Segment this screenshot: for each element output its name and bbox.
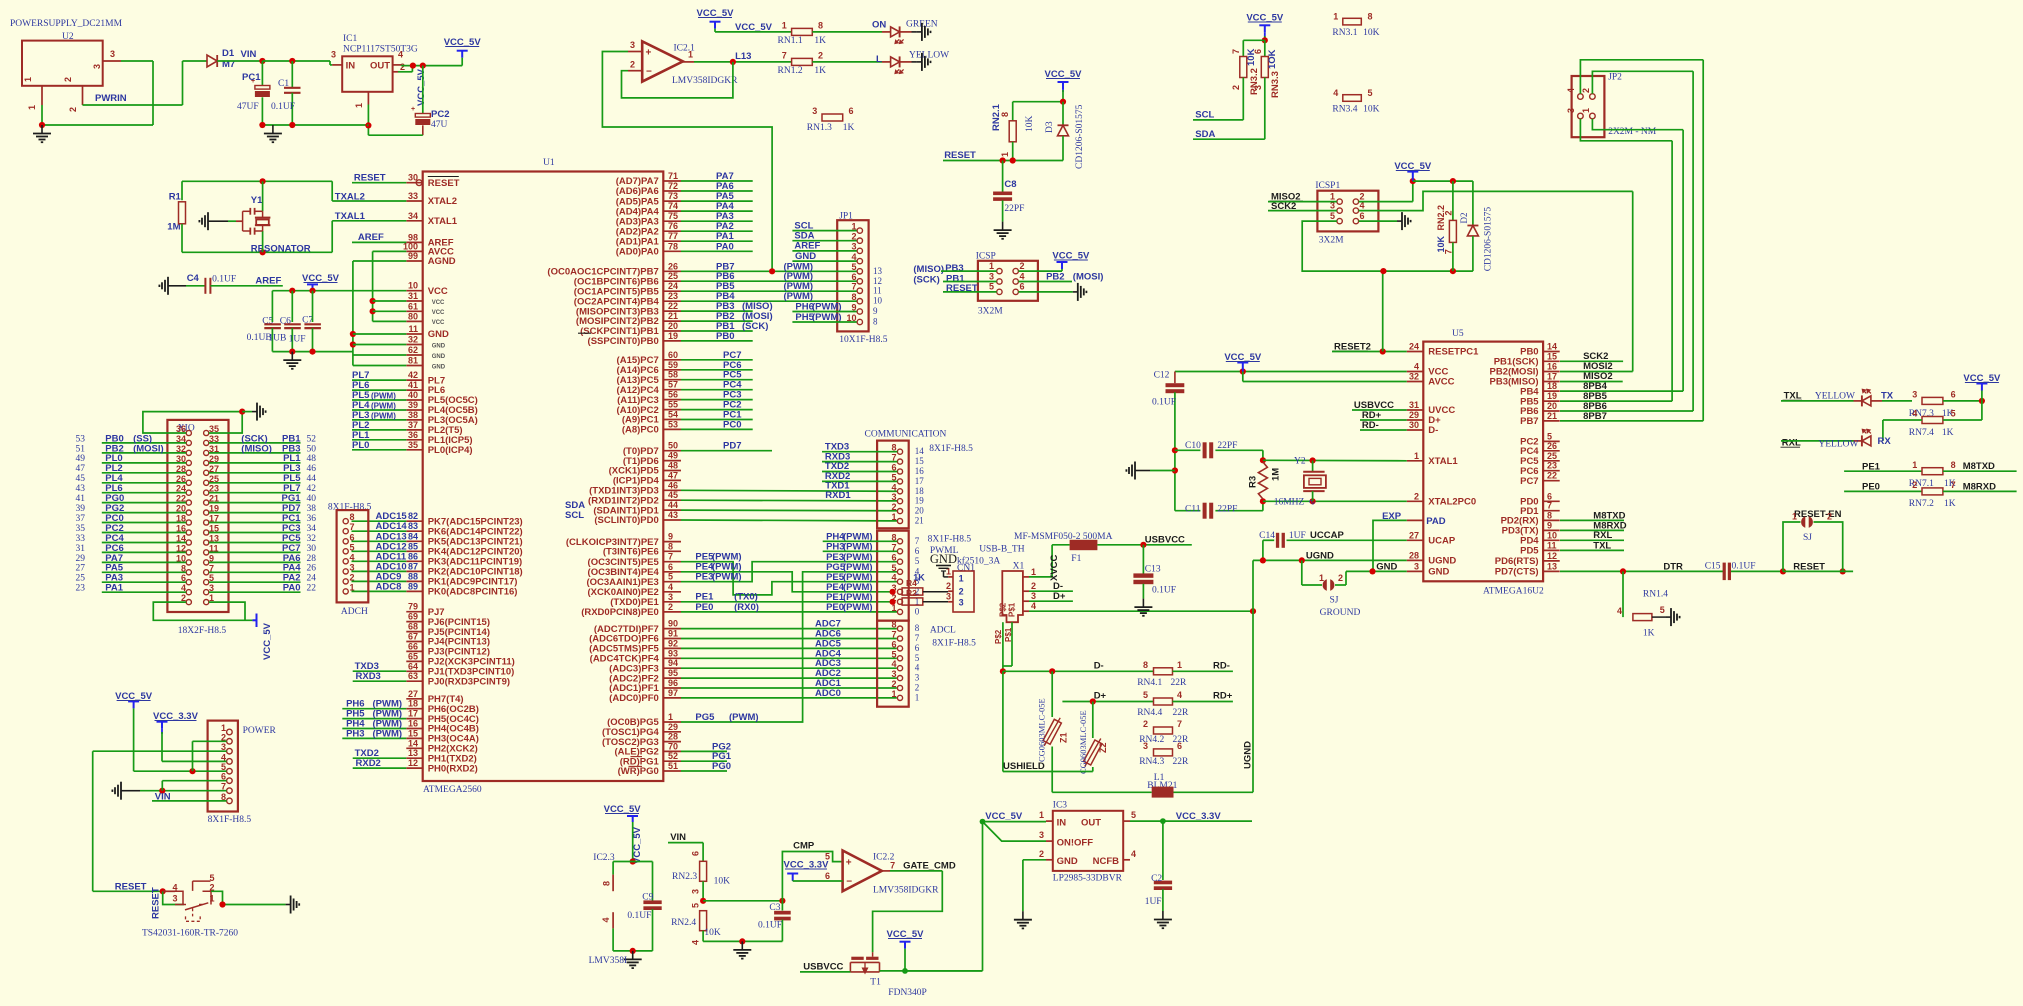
ADCH pin 6 [343, 539, 348, 544]
wire D+ row [1062, 701, 1153, 703]
COMM pin 4 [897, 489, 902, 494]
svg-text:PL0(ICP4): PL0(ICP4) [428, 445, 473, 456]
svg-text:RXD3: RXD3 [356, 671, 381, 682]
resistor RN1.1 1K [792, 28, 813, 35]
svg-text:83: 83 [408, 521, 418, 531]
wire VCC to RN1.1 [715, 31, 792, 33]
svg-text:8PB7: 8PB7 [1583, 411, 1607, 422]
svg-text:38: 38 [408, 410, 418, 420]
VCC_5V symbol top right of IC1 [457, 50, 468, 52]
U1 pin 51 (WR)PG0 [663, 770, 681, 772]
svg-text:26: 26 [1547, 441, 1557, 451]
svg-text:60: 60 [668, 350, 678, 360]
node DTR [1620, 568, 1626, 574]
svg-text:(PWM): (PWM) [371, 402, 396, 411]
svg-text:5: 5 [1143, 690, 1148, 700]
wire out rail to VCC_5V [400, 64, 402, 67]
svg-text:87: 87 [408, 561, 418, 571]
svg-text:U5: U5 [1452, 329, 1464, 339]
ICSP1 pin6 to ground [1359, 220, 1397, 222]
svg-text:0.1UF: 0.1UF [758, 921, 782, 931]
svg-text:10K: 10K [1436, 235, 1446, 252]
U1 pin 50 (T0)PD7 [663, 450, 681, 452]
VCC_5V right [1976, 383, 1987, 385]
U1 pin 44 (SDAINT1)PD1 [663, 509, 681, 511]
svg-text:12: 12 [1547, 551, 1557, 561]
wire PG0 stub [681, 770, 727, 772]
U1 pin 8 (T3INT6)PE6 [663, 550, 681, 552]
svg-text:35: 35 [408, 440, 418, 450]
junction PWML pin2 R2 [890, 599, 896, 605]
svg-text:PC1: PC1 [242, 72, 261, 83]
svg-text:8X1F-H8.5: 8X1F-H8.5 [932, 639, 976, 649]
resistor RN2.1 10K vertical [1012, 102, 1014, 121]
U1 pin 38 PL3(OC5A) [406, 419, 422, 421]
svg-text:12: 12 [408, 758, 418, 768]
svg-text:1: 1 [1319, 573, 1324, 583]
feedback wire pin1 to pin2 [622, 62, 733, 98]
PWML pin 6 [897, 559, 902, 564]
svg-text:PJ0(RXD3PCINT9): PJ0(RXD3PCINT9) [428, 676, 510, 687]
svg-text:USBVCC: USBVCC [803, 962, 843, 973]
svg-text:CN1: CN1 [957, 564, 975, 574]
svg-text:65: 65 [408, 651, 418, 661]
svg-text:TS42031-160R-TR-7260: TS42031-160R-TR-7260 [142, 929, 238, 939]
COMM pin 5 [897, 479, 902, 484]
resistor RN1.3 spare [822, 114, 843, 121]
svg-text:7: 7 [1951, 480, 1956, 490]
COMM pin 2 [897, 509, 902, 514]
U1 pin 42 PL7 [406, 379, 422, 381]
resistor R4 [902, 588, 923, 595]
U1 pin 9 (CLKOICP3INT7)PE7 [663, 541, 681, 543]
svg-text:32: 32 [1409, 372, 1419, 382]
svg-text:USHIELD: USHIELD [1003, 761, 1045, 772]
VCC rail to RN2.2 and D2 [1413, 180, 1473, 182]
svg-text:T1: T1 [870, 978, 881, 988]
svg-text:PC0: PC0 [723, 419, 741, 430]
COMM pin 7 [897, 459, 902, 464]
svg-text:3: 3 [1143, 741, 1148, 751]
JP1 pin 9 [857, 309, 862, 314]
svg-text:22R: 22R [1173, 708, 1190, 718]
svg-text:1UF: 1UF [289, 335, 306, 345]
U1 pin 21 PB2 [663, 320, 681, 322]
ADCH pin 8 [343, 519, 348, 524]
PWML pin 5 [897, 569, 902, 574]
svg-text:9: 9 [873, 306, 878, 316]
svg-text:92: 92 [668, 638, 678, 648]
svg-text:2: 2 [1231, 85, 1241, 90]
svg-text:93: 93 [668, 648, 678, 658]
svg-text:XTAL2PC0: XTAL2PC0 [1428, 497, 1476, 508]
op-amp IC2.2 [843, 851, 882, 892]
junction at U2 pin1 gnd [39, 122, 45, 128]
svg-text:5: 5 [989, 282, 994, 292]
svg-text:∿: ∿ [1308, 497, 1316, 507]
svg-text:USBVCC: USBVCC [1145, 535, 1185, 546]
svg-text:RN3.3: RN3.3 [1270, 71, 1281, 98]
U1 pin 78 (AD0)PA0 [663, 250, 681, 252]
svg-text:3: 3 [331, 50, 336, 60]
ADCL pin 4 [897, 666, 902, 671]
svg-text:RN2.2: RN2.2 [1436, 205, 1446, 231]
svg-text:43: 43 [668, 510, 678, 520]
svg-text:ADC0: ADC0 [815, 688, 841, 699]
svg-text:47U: 47U [431, 120, 448, 130]
svg-text:POWERSUPPLY_DC21MM: POWERSUPPLY_DC21MM [10, 19, 123, 29]
capacitor C3 0.1UF [781, 901, 783, 911]
svg-text:69: 69 [408, 612, 418, 622]
svg-text:RESET: RESET [354, 172, 386, 183]
svg-text:51: 51 [668, 761, 678, 771]
svg-text:2: 2 [959, 587, 964, 597]
JP1 pin 4 [857, 258, 862, 263]
svg-text:R3: R3 [1248, 476, 1259, 488]
svg-text:8: 8 [818, 21, 823, 31]
svg-text:(A8)PC0: (A8)PC0 [622, 425, 659, 436]
svg-text:2: 2 [1414, 491, 1419, 501]
svg-text:80: 80 [408, 311, 418, 321]
svg-text:21: 21 [915, 516, 924, 526]
svg-text:D-: D- [1428, 425, 1438, 436]
svg-text:68: 68 [408, 622, 418, 632]
svg-text:ADCH: ADCH [341, 607, 368, 617]
U5 pin 2 XTAL2PC0 [1407, 500, 1424, 502]
svg-text:32: 32 [307, 534, 317, 544]
svg-text:3: 3 [350, 562, 355, 572]
JP2 pin4 [1578, 94, 1584, 100]
IC3 pin1 [1046, 820, 1053, 822]
U5 pin 21 PB7 [1543, 420, 1560, 422]
svg-text:2: 2 [891, 502, 896, 512]
svg-text:CMP: CMP [793, 840, 815, 851]
U5 pin 28 UGND [1407, 559, 1424, 561]
resistor RN2.4 10K [700, 911, 707, 931]
svg-text:91: 91 [668, 629, 678, 639]
svg-text:40: 40 [408, 390, 418, 400]
svg-text:CG0603MLC-05E: CG0603MLC-05E [1078, 710, 1088, 774]
U1 pin 15 PH3(OC4A) [406, 737, 422, 739]
XIO pins 32/31 [186, 450, 191, 455]
svg-text:62: 62 [408, 345, 418, 355]
svg-text:POWER: POWER [243, 726, 277, 736]
resistor RN4.4 22R [1154, 698, 1173, 705]
JP1 pin 5 [857, 269, 862, 274]
XIO pins 28/27 [186, 470, 191, 475]
U1 pin 18 PH6(OC2B) [406, 708, 422, 710]
svg-text:PWRIN: PWRIN [95, 93, 127, 104]
LED RX yellow [1862, 436, 1871, 446]
svg-text:RESET: RESET [428, 178, 460, 189]
svg-text:39: 39 [76, 504, 86, 514]
svg-text:28: 28 [307, 554, 317, 564]
svg-text:D1: D1 [222, 48, 235, 59]
U1 pin 46 (TXD1INT3)PD3 [663, 489, 681, 491]
svg-text:(PWM): (PWM) [729, 712, 759, 723]
IC2.2 output GATE_CMD [882, 870, 890, 872]
wire PE0 to PWML pin1 [681, 611, 897, 613]
wire PH4 to PWML pin8 [823, 540, 898, 542]
svg-text:5: 5 [891, 649, 896, 659]
svg-text:3: 3 [891, 492, 896, 502]
svg-text:COMMUNICATION: COMMUNICATION [865, 430, 947, 440]
svg-text:(SCK): (SCK) [913, 274, 939, 285]
wire pin3 to PB7 column [602, 52, 772, 272]
svg-text:7: 7 [890, 860, 895, 870]
svg-text:(MOSI): (MOSI) [133, 443, 164, 454]
svg-text:PH0(RXD2): PH0(RXD2) [428, 763, 478, 774]
U5 M8RXD stub [1560, 529, 1624, 531]
svg-text:50: 50 [668, 441, 678, 451]
svg-text:24: 24 [307, 574, 317, 584]
wire ICSP pin2 to VCC_5V [1018, 270, 1062, 272]
svg-text:2X2M - NM: 2X2M - NM [1608, 127, 1657, 137]
svg-text:ADCL: ADCL [930, 626, 956, 636]
resistor RN3.4 spare [1343, 95, 1362, 102]
svg-text:77: 77 [668, 231, 678, 241]
svg-text:52: 52 [668, 751, 678, 761]
svg-text:GROUND: GROUND [1320, 608, 1361, 618]
svg-text:3: 3 [959, 598, 964, 608]
svg-text:4: 4 [601, 917, 611, 922]
svg-text:24: 24 [1409, 342, 1419, 352]
svg-text:−: − [646, 67, 652, 78]
svg-text:38: 38 [307, 504, 317, 514]
svg-text:VCC_5V: VCC_5V [416, 68, 427, 106]
POWER pin 1 [227, 729, 233, 735]
svg-text:6: 6 [849, 106, 854, 116]
U1 pin 94 (ADC3)PF3 [663, 667, 681, 669]
svg-text:3: 3 [915, 673, 920, 683]
ADCH pin 5 [343, 549, 348, 554]
XTAL2 wire to U5 [1263, 500, 1407, 502]
svg-text:3: 3 [891, 669, 896, 679]
svg-text:(MOSI): (MOSI) [1073, 271, 1104, 282]
U5 8PB4 wire to JP2 [1560, 390, 1683, 392]
U1 pin 33 XTAL2 [406, 200, 422, 202]
svg-text:(SCLINT0)PD0: (SCLINT0)PD0 [594, 515, 658, 526]
wires pins 31/61/80 [373, 300, 407, 302]
svg-text:18X2F-H8.5: 18X2F-H8.5 [178, 626, 227, 636]
U5 pin 26 PC4 [1543, 450, 1560, 452]
svg-text:ATMEGA2560: ATMEGA2560 [423, 785, 482, 795]
divider node [700, 898, 706, 904]
U5 pin 29 D+ [1407, 419, 1424, 421]
U1 pin 54 (A9)PC1 [663, 419, 681, 421]
LED YELLOW L [891, 57, 900, 67]
svg-text:RN4.1: RN4.1 [1137, 678, 1162, 688]
svg-text:L13: L13 [735, 51, 751, 62]
U5 pin 7 PD1 [1543, 510, 1560, 512]
X1 shield pins down [1002, 622, 1004, 671]
PWML pin 4 [897, 579, 902, 584]
svg-text:OUT: OUT [1081, 817, 1101, 828]
svg-text:33: 33 [76, 534, 86, 544]
svg-text:4: 4 [350, 552, 355, 562]
XIO pins 20/19 [186, 510, 191, 515]
capacitor C13 0.1UF [1142, 545, 1144, 574]
overline WR [629, 765, 643, 767]
wire ICSP pin6 to ground [1018, 291, 1072, 293]
svg-text:1UF: 1UF [1145, 897, 1162, 907]
svg-text:1K: 1K [1643, 629, 1655, 639]
svg-text:PD6(RTS): PD6(RTS) [1495, 556, 1539, 567]
svg-text:5: 5 [1131, 810, 1136, 820]
ground rotated at GREEN led [900, 31, 912, 33]
svg-text:2: 2 [915, 683, 920, 693]
COMM pin 8 [897, 449, 902, 454]
svg-text:PD7: PD7 [723, 441, 741, 452]
diode D2 [1472, 181, 1474, 225]
svg-text:L: L [876, 54, 882, 65]
svg-text:26: 26 [668, 261, 678, 271]
svg-text:23: 23 [1547, 461, 1557, 471]
svg-text:6: 6 [891, 553, 896, 563]
JP2 pin1 [1590, 113, 1596, 119]
wire PH3 to PWML pin7 [823, 550, 898, 552]
X1 pin4 UGND long wire [1023, 610, 1029, 612]
UGND row wire [1253, 559, 1407, 561]
svg-text:3: 3 [946, 592, 951, 602]
svg-text:GND: GND [432, 354, 446, 360]
svg-text:1K: 1K [1942, 428, 1954, 438]
U1 pin 59 (A14)PC6 [663, 369, 681, 371]
U1 pin 83 PK6(ADC14PCINT22) [406, 530, 422, 532]
svg-text:31: 31 [1409, 400, 1419, 410]
svg-text:3: 3 [812, 106, 817, 116]
wire PG1 stub [681, 760, 727, 762]
svg-text:1: 1 [350, 582, 355, 592]
ADCH pin 4 [343, 559, 348, 564]
svg-text:SJ: SJ [1803, 533, 1812, 543]
U1 pin 55 (A10)PC2 [663, 409, 681, 411]
U5 pin 12 PD6(RTS) [1543, 560, 1560, 562]
capacitor C4 0.1UF AREF [168, 285, 173, 287]
PWML pin 1 [897, 609, 902, 614]
svg-text:1: 1 [27, 105, 37, 110]
svg-text:73: 73 [668, 191, 678, 201]
capacitor C8 22PF [1002, 161, 1004, 193]
varistor Z1 CG0603MLC-05E [1051, 671, 1053, 717]
svg-text:2: 2 [63, 77, 73, 82]
U5 pin 24 RESETPC1 [1407, 351, 1424, 353]
svg-text:RD-: RD- [1213, 661, 1230, 672]
svg-text:RD+: RD+ [1213, 691, 1233, 702]
ADCH pin 3 [343, 569, 348, 574]
svg-text:86: 86 [408, 551, 418, 561]
svg-text:2: 2 [668, 602, 673, 612]
resistor RN2.3 10K [700, 861, 707, 881]
junction PWML pin3 R4 [890, 589, 896, 595]
U5 pin 25 PC5 [1543, 460, 1560, 462]
svg-text:AGND: AGND [428, 256, 456, 267]
U1 pin 27 PH7(T4) [406, 698, 422, 700]
U1 pin 58 (A13)PC5 [663, 379, 681, 381]
svg-text:8: 8 [915, 623, 920, 633]
svg-text:27: 27 [76, 564, 86, 574]
wire resonator top XTAL2 [182, 180, 332, 182]
svg-text:2: 2 [1912, 480, 1917, 490]
U1 VCC pins 10/31/61/80 [406, 290, 422, 292]
svg-text:19: 19 [668, 331, 678, 341]
svg-text:RN1.4: RN1.4 [1643, 590, 1668, 600]
XIO pins 16/15 [186, 530, 191, 535]
svg-text:22PF: 22PF [1217, 441, 1237, 451]
svg-text:C1: C1 [278, 79, 289, 89]
svg-text:1: 1 [891, 512, 896, 522]
svg-text:7: 7 [851, 282, 856, 292]
U1 pin 67 PJ4(PCINT13) [406, 641, 422, 643]
U5 pin 4 VCC [1407, 371, 1424, 373]
svg-text:4: 4 [398, 50, 403, 60]
svg-text:VCC: VCC [432, 300, 445, 306]
U5 pin 3 GND [1407, 570, 1424, 572]
svg-text:RD-: RD- [1362, 420, 1379, 431]
svg-text:VCC_3.3V: VCC_3.3V [1176, 811, 1222, 822]
wire PE1 to PWML pin2 [681, 601, 890, 603]
svg-text:PH3: PH3 [346, 728, 364, 739]
U5 M8TXD stub [1560, 519, 1624, 521]
svg-text:GND: GND [1428, 567, 1449, 578]
svg-text:D3: D3 [1045, 121, 1055, 133]
resistor RN7.3 1K [1922, 397, 1943, 404]
svg-text:U1: U1 [543, 158, 555, 168]
wire TXD1 long [681, 490, 897, 491]
svg-text:1OK: 1OK [1267, 49, 1278, 69]
diagonal wire to ON!OFF [983, 822, 1047, 842]
svg-text:0: 0 [915, 606, 920, 616]
svg-text:9: 9 [1547, 520, 1552, 530]
svg-text:4: 4 [1031, 601, 1036, 611]
USBVCC label stub U5 [1352, 409, 1407, 411]
svg-text:31: 31 [76, 544, 86, 554]
svg-text:1: 1 [1581, 108, 1591, 113]
U1 pin 69 PJ6(PCINT15) [406, 621, 422, 623]
USBVCC wire [1097, 544, 1191, 546]
U1 pin 53 (A8)PC0 [663, 428, 681, 430]
U5 pin 6 PD0 [1543, 500, 1560, 502]
XIO pins 26/25 [186, 480, 191, 485]
diode D1 M7 [207, 55, 217, 67]
svg-text:(RXD0PCIN8)PE0: (RXD0PCIN8)PE0 [581, 607, 659, 618]
svg-text:0.1UF: 0.1UF [1152, 398, 1176, 408]
svg-text:USB-B_TH: USB-B_TH [979, 545, 1025, 555]
svg-text:VCC_5V: VCC_5V [735, 22, 773, 33]
svg-text:LMV358IDGKR: LMV358IDGKR [672, 76, 738, 86]
svg-text:10: 10 [408, 281, 418, 291]
ground below C2 [1162, 911, 1164, 920]
U5 pin 11 PD5 [1543, 549, 1560, 551]
ADCL pin 8 [897, 626, 902, 631]
svg-text:23: 23 [668, 291, 678, 301]
wire D1 to VIN node [217, 60, 262, 62]
svg-text:4: 4 [1566, 88, 1576, 93]
button to ground wire [211, 891, 223, 904]
IC3 pin4 [1123, 859, 1130, 861]
XIO bottom pins 2/1 to VCC [153, 602, 252, 620]
connector POWER 8X1F-H8.5 [208, 721, 238, 812]
U5 pin 16 PB2(MOSI) [1543, 371, 1560, 373]
U5 pin 15 PB1(SCK) [1543, 360, 1560, 362]
junction Z1 top [1049, 668, 1055, 674]
U1 pin 73 (AD5)PA5 [663, 200, 681, 202]
svg-text:PB2: PB2 [1046, 271, 1064, 282]
svg-text:1UF: 1UF [1289, 531, 1306, 541]
U1 pin 99 AGND [406, 260, 422, 262]
svg-text:XTAL2: XTAL2 [428, 196, 457, 207]
U1 pin 19 PB0 [663, 340, 681, 342]
